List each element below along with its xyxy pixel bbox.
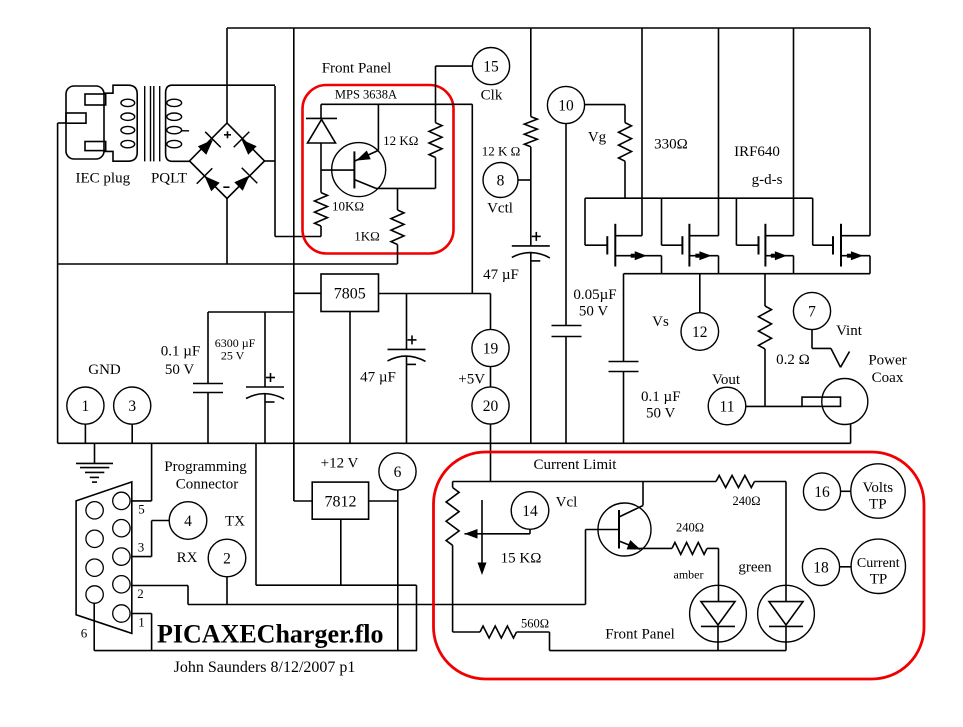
svg-text:+5V: +5V xyxy=(458,372,485,388)
transistor Q1 emitter xyxy=(355,150,379,161)
wire vout to coax xyxy=(746,405,802,407)
label Power Coax xyxy=(868,353,906,387)
wire 560 corner xyxy=(549,632,551,651)
svg-text:20: 20 xyxy=(483,398,499,415)
wire mps top rail xyxy=(321,103,472,105)
bottom left ground wire xyxy=(94,650,417,652)
label 560ohm xyxy=(521,617,549,631)
label 0.05uF xyxy=(573,287,616,320)
wire dc minus bus xyxy=(58,263,398,265)
bridge diode top-right xyxy=(234,132,257,155)
LED amber xyxy=(690,585,747,650)
wire pin3 to node4 xyxy=(132,521,169,557)
wire node1 to bus xyxy=(84,424,86,443)
capacitor 6300uF 25V xyxy=(246,312,284,443)
label 47 uF (vctl) xyxy=(483,267,519,283)
resistor 1K xyxy=(391,188,404,264)
label +5V xyxy=(458,372,485,388)
wire coax to ground bus xyxy=(850,424,852,443)
node 20 xyxy=(472,387,509,424)
label Front Panel bottom xyxy=(605,627,675,643)
label 0.1uF right xyxy=(641,389,681,422)
label g-d-s xyxy=(752,172,783,188)
svg-text:12 KΩ: 12 KΩ xyxy=(383,133,418,148)
diode D1 xyxy=(306,104,337,170)
main vertical bus xyxy=(293,28,295,501)
svg-text:50 V: 50 V xyxy=(646,406,675,422)
wire cap 0.05 to bus xyxy=(565,337,567,444)
node 12 Vs xyxy=(681,313,719,351)
svg-text:15: 15 xyxy=(483,59,499,76)
svg-text:John Saunders 8/12/2007 p1: John Saunders 8/12/2007 p1 xyxy=(174,659,356,676)
svg-text:PICAXECharger.flo: PICAXECharger.flo xyxy=(157,620,384,649)
wire rx line xyxy=(188,604,586,606)
label green xyxy=(738,560,772,576)
svg-text:2: 2 xyxy=(137,586,144,601)
svg-text:Vg: Vg xyxy=(588,130,607,146)
wire 7812 output xyxy=(369,500,398,502)
node 16 xyxy=(803,473,840,510)
node 8 Vctl xyxy=(483,163,518,198)
wire vs drop xyxy=(699,274,701,313)
svg-text:GND: GND xyxy=(88,362,121,378)
svg-text:1: 1 xyxy=(138,615,145,630)
wire 7812 gnd riser xyxy=(416,585,418,650)
svg-text:240Ω: 240Ω xyxy=(732,494,760,508)
wire Q2 base lead xyxy=(586,529,620,531)
svg-text:2: 2 xyxy=(223,550,231,567)
node 1 xyxy=(67,387,104,424)
wire pin5 to bus xyxy=(132,443,152,501)
svg-text:10: 10 xyxy=(558,97,574,114)
wire bridge + to top border xyxy=(226,28,228,123)
node 15 Clk xyxy=(472,48,509,85)
source bus wire xyxy=(624,273,871,275)
node 11 Vout xyxy=(708,387,746,425)
transistor Q2 collector xyxy=(619,482,643,518)
svg-text:Coax: Coax xyxy=(872,370,904,386)
node 10 Vg xyxy=(547,86,584,123)
svg-text:7: 7 xyxy=(808,303,816,320)
capacitor 0.1uF 50V (left) xyxy=(193,312,223,443)
svg-text:8: 8 xyxy=(497,172,505,189)
svg-text:12: 12 xyxy=(692,324,708,341)
svg-text:Front Panel: Front Panel xyxy=(322,61,392,77)
wire output to node19 xyxy=(490,294,492,330)
svg-text:Power: Power xyxy=(868,353,906,369)
resistor 12K (mps) xyxy=(429,66,442,188)
mosfet M1 IRF640 xyxy=(585,28,662,274)
node 19 xyxy=(472,329,509,366)
svg-text:Vs: Vs xyxy=(652,314,669,330)
resistor 560 xyxy=(453,626,550,638)
wire 7805 gnd xyxy=(349,312,351,444)
svg-text:0.2 Ω: 0.2 Ω xyxy=(776,352,810,368)
svg-text:Vctl: Vctl xyxy=(487,201,513,217)
svg-text:Vint: Vint xyxy=(836,323,863,339)
pin 6 label xyxy=(81,626,88,641)
top border wire xyxy=(227,27,870,29)
wire cap to ground bus xyxy=(530,253,532,444)
bridge diode top-left xyxy=(198,132,221,155)
wire node3 to bus xyxy=(131,424,133,443)
mosfet M3 IRF640 xyxy=(736,28,793,274)
wire 7805 input xyxy=(294,292,321,294)
bottom ground bus xyxy=(58,442,851,444)
title PICAXECharger.flo xyxy=(157,620,384,649)
adjust arrow xyxy=(478,500,487,575)
label 12 Kohm (mps) xyxy=(383,133,418,148)
node 4 TX xyxy=(169,502,207,540)
wire node6 down xyxy=(397,490,399,650)
wire 240 to green led xyxy=(755,481,787,483)
svg-text:Current Limit: Current Limit xyxy=(534,457,618,473)
svg-text:19: 19 xyxy=(483,340,499,357)
node 6 xyxy=(379,453,416,490)
test point Current TP xyxy=(851,539,905,593)
mosfet M2 IRF640 xyxy=(662,28,719,274)
wire node to 10K resistor xyxy=(275,236,321,238)
bridge diode bottom-left xyxy=(197,168,220,191)
label Vctl xyxy=(487,201,513,217)
wire node2 down xyxy=(226,577,228,605)
wire source bus to 0.1uF xyxy=(623,274,625,362)
LED green xyxy=(758,482,815,651)
wire Q2 emitter lead xyxy=(638,547,672,549)
resistor 10K xyxy=(315,170,328,236)
wire 7812 bottom xyxy=(340,519,342,585)
resistor 240 (top) xyxy=(716,476,755,488)
wire vint probe xyxy=(812,330,850,368)
wire node10 to 330 xyxy=(585,104,625,106)
svg-text:Vcl: Vcl xyxy=(556,495,578,511)
pot wiper arrow xyxy=(465,529,531,539)
subtitle author xyxy=(174,659,356,676)
label IEC plug xyxy=(76,171,131,187)
svg-text:50 V: 50 V xyxy=(579,304,608,320)
wire 240 to amber xyxy=(707,548,719,601)
svg-text:7805: 7805 xyxy=(334,286,366,303)
label 240ohm top xyxy=(732,494,760,508)
svg-text:16: 16 xyxy=(814,484,830,501)
wire 18 to current tp xyxy=(840,566,852,568)
capacitor 47uF (7805 out) xyxy=(388,294,426,444)
svg-text:PQLT: PQLT xyxy=(151,171,187,187)
wire node8 tap xyxy=(518,179,531,181)
node 2 RX xyxy=(208,539,246,577)
resistor 0.2ohm xyxy=(759,274,772,407)
potentiometer 15K xyxy=(446,482,459,633)
label 330ohm xyxy=(654,137,688,153)
svg-text:Current: Current xyxy=(857,556,900,571)
wire rx to Q2 base xyxy=(585,530,587,605)
pin 2 label xyxy=(137,586,144,601)
capacitor 47uF (vctl) xyxy=(512,232,550,261)
svg-text:3: 3 xyxy=(128,398,136,415)
svg-text:1KΩ: 1KΩ xyxy=(354,229,380,244)
svg-text:Programming: Programming xyxy=(164,459,247,475)
wire iec plug to left border xyxy=(58,122,66,124)
label GND xyxy=(88,362,121,378)
wire mps rail to 7805 output xyxy=(471,104,473,293)
svg-text:11: 11 xyxy=(720,398,735,415)
power coax connector xyxy=(802,379,868,425)
label 15 Kohm xyxy=(501,551,542,567)
red highlight box MPS circuit xyxy=(303,85,454,254)
wire 7812 gnd line xyxy=(256,584,417,586)
label 240ohm mid xyxy=(676,521,704,535)
label 12 K ohm (vctl) xyxy=(482,144,521,159)
DB9 connector body xyxy=(76,482,132,634)
svg-text:1: 1 xyxy=(82,398,90,415)
gate bus wire xyxy=(585,197,813,199)
svg-text:Front Panel: Front Panel xyxy=(605,627,675,643)
red highlight box current limit xyxy=(434,452,925,679)
label Vout xyxy=(712,372,741,388)
node 7 Vint xyxy=(793,292,830,329)
svg-text:15 KΩ: 15 KΩ xyxy=(501,551,542,567)
wire node20 down xyxy=(490,424,492,481)
regulator 7805 xyxy=(321,274,379,312)
wire bridge right stub xyxy=(265,160,276,162)
wire bridge - down xyxy=(226,199,228,265)
svg-text:green: green xyxy=(738,560,772,576)
svg-text:0.05µF: 0.05µF xyxy=(573,287,616,303)
wire bus drop to 7812 line xyxy=(255,443,257,585)
svg-text:50 V: 50 V xyxy=(165,362,194,378)
ground symbol xyxy=(76,443,113,482)
label Vg xyxy=(588,130,607,146)
resistor 12K (vctl) xyxy=(524,117,537,147)
transformer T1 primary winding xyxy=(104,85,137,161)
svg-text:6: 6 xyxy=(394,464,402,481)
svg-text:25 V: 25 V xyxy=(221,349,245,363)
svg-text:TP: TP xyxy=(869,497,887,513)
wire pin1 xyxy=(132,614,152,651)
wire 12K to cap xyxy=(530,147,532,246)
led bottom rail xyxy=(550,650,787,652)
svg-text:+12 V: +12 V xyxy=(321,456,359,472)
label Programming Connector xyxy=(164,459,247,493)
label TX xyxy=(225,514,245,530)
label Clk xyxy=(481,88,503,104)
svg-text:47 µF: 47 µF xyxy=(360,370,396,386)
transistor Q1 base bar xyxy=(353,151,355,188)
svg-text:14: 14 xyxy=(522,503,538,520)
label Vcl xyxy=(556,495,578,511)
label 47uF (7805) xyxy=(360,370,396,386)
svg-text:Volts: Volts xyxy=(863,480,894,496)
label Vint xyxy=(836,323,863,339)
bridge rectifier outline xyxy=(190,123,265,199)
svg-text:0.1 µF: 0.1 µF xyxy=(641,389,681,405)
current limit top rail xyxy=(453,481,716,483)
label amber xyxy=(674,568,704,582)
svg-text:IEC plug: IEC plug xyxy=(76,171,131,187)
wire input caps rail xyxy=(208,311,294,313)
svg-text:12 K Ω: 12 K Ω xyxy=(482,144,521,159)
svg-text:TP: TP xyxy=(870,572,888,588)
pin 5 label xyxy=(138,502,145,517)
wire bus to 7812 input xyxy=(294,443,312,501)
label 0.2ohm xyxy=(776,352,810,368)
transistor Q2 base bar xyxy=(618,510,620,549)
node 14 Vcl xyxy=(511,492,549,530)
wire Q1 base lead xyxy=(321,169,354,171)
pin 1 label xyxy=(138,615,145,630)
wire 16 to volts tp xyxy=(841,490,851,492)
label IRF640 xyxy=(734,144,780,160)
svg-text:Vout: Vout xyxy=(712,372,741,388)
resistor 240 (emitter) xyxy=(672,542,707,554)
svg-text:RX: RX xyxy=(177,550,198,566)
wire top border to 12K xyxy=(530,28,532,117)
label 1Kohm xyxy=(354,229,380,244)
wire 7805 output xyxy=(379,293,491,295)
transistor Q1 collector xyxy=(355,180,376,189)
bridge minus label xyxy=(223,186,229,188)
bridge diode bottom-right xyxy=(234,168,257,191)
DB9 pin circles xyxy=(86,492,130,622)
label 0.1uF left xyxy=(161,344,201,379)
label Vs xyxy=(652,314,669,330)
wire clk to rail xyxy=(436,65,473,67)
test point Volts TP xyxy=(851,464,905,518)
bridge plus label xyxy=(224,131,231,138)
transformer T1 core xyxy=(145,86,160,161)
label 10Kohm xyxy=(332,199,364,214)
wire Q1 collector line xyxy=(376,187,436,189)
wire pin2 xyxy=(132,586,188,605)
wire node19 to node20 xyxy=(490,367,492,387)
transistor Q1 circle xyxy=(332,143,386,197)
pin 3 label xyxy=(138,540,145,555)
svg-text:Clk: Clk xyxy=(481,88,503,104)
svg-text:g-d-s: g-d-s xyxy=(752,172,783,188)
svg-text:TX: TX xyxy=(225,514,245,530)
transistor Q2 circle xyxy=(598,503,651,556)
wire 0.1uF to bus xyxy=(623,372,625,444)
svg-text:18: 18 xyxy=(813,559,829,576)
svg-text:47 µF: 47 µF xyxy=(483,267,519,283)
node 18 xyxy=(802,548,839,585)
label Current Limit xyxy=(534,457,618,473)
svg-text:3: 3 xyxy=(138,540,145,555)
label MPS 3638A xyxy=(335,88,397,102)
wire secondary top to vertical xyxy=(274,86,276,237)
wire Q1 emitter to rail xyxy=(377,104,379,150)
svg-text:6: 6 xyxy=(81,626,88,641)
label PQLT xyxy=(151,171,187,187)
IEC plug connector xyxy=(66,86,106,159)
label Front Panel top xyxy=(322,61,392,77)
wire node14 to wiper xyxy=(529,529,531,534)
wire node10 down xyxy=(565,124,567,326)
svg-text:5: 5 xyxy=(138,502,145,517)
capacitor 0.1uF 50V (right) xyxy=(609,362,639,372)
svg-text:240Ω: 240Ω xyxy=(676,521,704,535)
mosfet M4 IRF640 xyxy=(813,28,870,274)
transformer T1 secondary winding xyxy=(166,85,275,161)
label 6300uF xyxy=(215,336,256,363)
node 3 xyxy=(114,387,151,424)
capacitor 0.05uF xyxy=(552,326,582,337)
svg-text:Connector: Connector xyxy=(176,477,238,493)
left border wire xyxy=(57,123,59,443)
svg-text:330Ω: 330Ω xyxy=(654,137,688,153)
wire pin6 down xyxy=(93,603,95,650)
svg-text:7812: 7812 xyxy=(325,494,357,511)
regulator 7812 xyxy=(312,482,368,519)
svg-text:4: 4 xyxy=(184,513,192,530)
svg-text:amber: amber xyxy=(674,568,704,582)
resistor 330 xyxy=(619,105,632,199)
label RX xyxy=(177,550,198,566)
transistor Q2 emitter xyxy=(619,540,641,549)
svg-text:IRF640: IRF640 xyxy=(734,144,780,160)
svg-text:MPS 3638A: MPS 3638A xyxy=(335,88,397,102)
svg-text:0.1 µF: 0.1 µF xyxy=(161,344,201,360)
svg-text:560Ω: 560Ω xyxy=(521,617,549,631)
svg-text:10KΩ: 10KΩ xyxy=(332,199,364,214)
label +12V xyxy=(321,456,359,472)
